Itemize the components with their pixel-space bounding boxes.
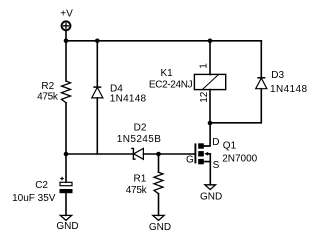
svg-text:R1: R1 [134,174,147,185]
svg-text:475k: 475k [37,91,59,102]
svg-text:EC2-24NJ: EC2-24NJ [149,80,193,91]
svg-text:10uF 35V: 10uF 35V [12,193,56,204]
svg-text:K1: K1 [161,68,174,79]
svg-text:D2: D2 [134,123,147,134]
svg-text:1: 1 [199,63,210,69]
svg-text:C2: C2 [35,180,48,191]
svg-text:GND: GND [56,221,78,232]
svg-text:GND: GND [149,222,171,233]
svg-text:12: 12 [199,91,210,103]
svg-text:1N4148: 1N4148 [270,84,307,95]
svg-text:1N5245B: 1N5245B [117,134,162,145]
svg-text:+V: +V [60,8,73,19]
svg-text:G: G [186,155,194,166]
svg-text:475k: 475k [126,185,148,196]
svg-text:S: S [213,160,220,171]
svg-text:Q1: Q1 [223,140,237,151]
svg-text:D3: D3 [271,70,284,81]
svg-text:R2: R2 [41,81,54,92]
svg-text:2N7000: 2N7000 [222,154,257,165]
svg-text:GND: GND [200,192,222,203]
svg-text:D: D [212,137,219,148]
svg-text:1N4148: 1N4148 [110,94,147,105]
